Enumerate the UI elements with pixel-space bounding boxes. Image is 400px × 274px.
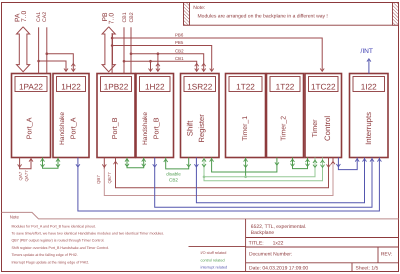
svg-text:Port_B: Port_B: [152, 117, 160, 139]
svg-text:CB1: CB1: [122, 12, 128, 22]
svg-text:1T22: 1T22: [236, 83, 255, 92]
svg-text:Control: Control: [323, 116, 332, 141]
svg-text:I/O stuff related: I/O stuff related: [201, 251, 227, 255]
svg-text:1T22: 1T22: [276, 83, 295, 92]
svg-text:CB2: CB2: [129, 12, 135, 22]
svg-text:/INT: /INT: [361, 48, 373, 55]
svg-text:QB77: QB77: [107, 172, 112, 184]
svg-text:Register: Register: [197, 114, 206, 143]
svg-text:Timers update at the falling e: Timers update at the falling edge of PHI…: [12, 253, 78, 257]
svg-text:To save time/effort, we have t: To save time/effort, we have two identic…: [12, 232, 165, 236]
svg-text:1PB22: 1PB22: [104, 83, 129, 92]
svg-text:Note: Note: [10, 214, 20, 219]
svg-text:Modules for Port_A and Port_B: Modules for Port_A and Port_B have ident…: [12, 224, 96, 228]
svg-text:QA7: QA7: [18, 171, 23, 180]
svg-text:interrupt related: interrupt related: [201, 265, 228, 269]
svg-text:6522, TTL, experimental.: 6522, TTL, experimental.: [251, 224, 306, 230]
svg-text:Note:: Note:: [193, 5, 205, 11]
svg-text:CA2: CA2: [42, 12, 48, 22]
svg-text:PB6: PB6: [175, 33, 184, 38]
svg-text:Timer: Timer: [311, 119, 319, 138]
svg-text:Port_A: Port_A: [25, 117, 33, 139]
svg-text:1I22: 1I22: [361, 83, 377, 92]
svg-text:1H22: 1H22: [61, 83, 81, 92]
svg-text:Sheet: 1/5: Sheet: 1/5: [356, 265, 379, 271]
svg-text:Shift: Shift: [186, 120, 195, 136]
svg-text:1TC22: 1TC22: [311, 83, 336, 92]
svg-text:CB2: CB2: [175, 48, 184, 53]
svg-text:1x22: 1x22: [273, 241, 284, 247]
svg-text:Shift register overrides Port_: Shift register overrides Port_B Handshak…: [12, 246, 110, 250]
svg-text:Timer_2: Timer_2: [281, 116, 288, 141]
svg-text:QB7: QB7: [96, 175, 101, 184]
svg-text:Handshake: Handshake: [142, 112, 149, 145]
svg-text:Interrupts: Interrupts: [364, 112, 373, 145]
svg-text:TITLE:: TITLE:: [249, 241, 264, 247]
svg-text:Date: 04.03.2019 17:09:00: Date: 04.03.2019 17:09:00: [249, 265, 308, 271]
svg-text:Handshake: Handshake: [59, 112, 66, 145]
svg-text:Backplane: Backplane: [251, 230, 275, 236]
svg-text:1SR22: 1SR22: [187, 83, 212, 92]
svg-text:disable: disable: [166, 171, 181, 176]
svg-text:Port_A: Port_A: [69, 117, 77, 139]
svg-text:CB1: CB1: [175, 56, 184, 61]
svg-text:REV:: REV:: [381, 251, 392, 257]
svg-text:Modules are arranged on the ba: Modules are arranged on the backplane in…: [198, 13, 328, 19]
svg-text:Timer_1: Timer_1: [242, 116, 249, 141]
svg-text:7..0: 7..0: [21, 10, 28, 22]
svg-text:control related: control related: [201, 258, 225, 262]
svg-text:1H22: 1H22: [145, 83, 165, 92]
svg-text:PB5: PB5: [175, 40, 184, 45]
svg-text:QB7 (PB7 output register) is r: QB7 (PB7 output register) is routed thro…: [12, 239, 105, 243]
svg-text:Document Number:: Document Number:: [249, 251, 292, 257]
svg-text:Interrupt Flags update at the: Interrupt Flags update at the rising edg…: [12, 260, 90, 264]
svg-text:QA77: QA77: [24, 170, 29, 182]
svg-text:CB2: CB2: [169, 177, 178, 182]
svg-text:1PA22: 1PA22: [19, 83, 43, 92]
svg-text:7..0: 7..0: [109, 13, 116, 25]
svg-text:Port_B: Port_B: [111, 117, 119, 139]
